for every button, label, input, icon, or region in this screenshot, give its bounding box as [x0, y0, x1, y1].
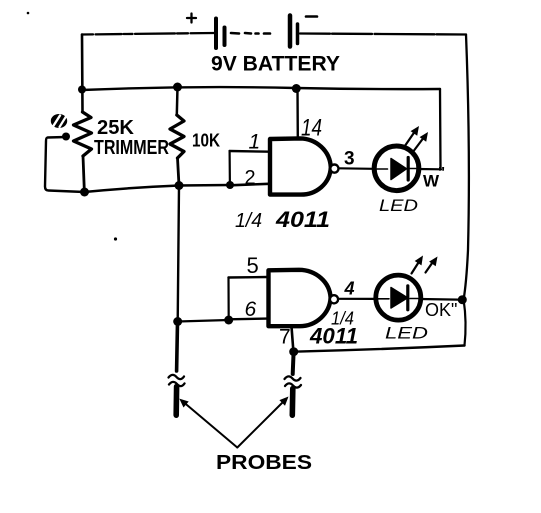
- svg-text:5: 5: [247, 253, 259, 278]
- svg-text:LED: LED: [379, 197, 418, 215]
- svg-text:3: 3: [344, 149, 355, 170]
- svg-text:LED: LED: [385, 324, 428, 343]
- svg-text:10K: 10K: [192, 131, 220, 151]
- svg-text:1: 1: [249, 131, 261, 154]
- svg-text:4: 4: [344, 279, 355, 299]
- svg-text:": ": [438, 164, 445, 181]
- svg-text:7: 7: [279, 326, 291, 349]
- svg-text:9V BATTERY: 9V BATTERY: [211, 53, 340, 76]
- svg-text:1/4: 1/4: [235, 210, 262, 232]
- svg-text:TRIMMER: TRIMMER: [94, 137, 169, 159]
- svg-text:25K: 25K: [97, 117, 135, 139]
- svg-text:14: 14: [301, 115, 322, 142]
- svg-text:6: 6: [245, 298, 257, 321]
- svg-text:OK": OK": [425, 300, 457, 320]
- svg-text:2: 2: [245, 167, 256, 189]
- svg-text:PROBES: PROBES: [216, 452, 312, 474]
- svg-text:4011: 4011: [275, 207, 330, 232]
- svg-text:4011: 4011: [309, 324, 358, 349]
